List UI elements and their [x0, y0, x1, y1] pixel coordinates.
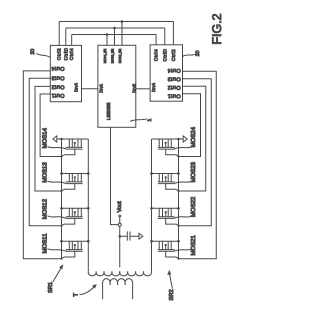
svg-text:T: T	[73, 293, 80, 297]
transistor MOS12	[60, 207, 89, 227]
junction MOS3_EN/Ctrl3	[113, 27, 116, 30]
transistor MOS24	[152, 138, 180, 158]
wire left Ctrl2 stub	[58, 22, 60, 46]
svg-text:MOS22: MOS22	[190, 196, 197, 217]
svg-text:Drv4: Drv4	[74, 82, 79, 92]
wire Out2-left to MOS13 gate	[35, 86, 62, 191]
svg-text:Ctrl4: Ctrl4	[154, 49, 159, 61]
driver U-left 20	[50, 45, 81, 101]
svg-text:Out3: Out3	[51, 74, 64, 80]
svg-text:20: 20	[195, 50, 201, 56]
wire Out1-left to MOS14 gate	[40, 94, 61, 157]
leader SR1	[53, 265, 63, 281]
svg-text:MOS3_EN: MOS3_EN	[110, 49, 114, 63]
arrow output right (node B)	[179, 136, 188, 142]
wire Ctrl2 bus (top outer)	[59, 21, 173, 23]
wire Out2-right to MOS23 gate	[179, 86, 206, 191]
wire Drv2	[136, 88, 150, 90]
label MOS22	[174, 196, 197, 218]
leader 20 right	[183, 54, 195, 56]
svg-text:20: 20	[30, 49, 36, 55]
label MOS11	[41, 233, 66, 254]
arrow output centre	[139, 233, 143, 239]
junction Vout node	[118, 235, 121, 238]
svg-text:Out4: Out4	[51, 65, 64, 71]
label MOS23	[174, 161, 197, 183]
junction MOS4_EN/Ctrl4	[106, 33, 109, 36]
wire left Ctrl4 stub	[71, 35, 73, 46]
svg-text:MOS13: MOS13	[41, 162, 48, 183]
svg-text:Out1: Out1	[51, 92, 64, 98]
svg-text:CtrlD: CtrlD	[63, 47, 68, 60]
label MOS21	[174, 234, 197, 255]
transistor MOS23	[150, 172, 180, 192]
svg-text:LSENSE: LSENSE	[106, 103, 111, 120]
wire left column inner rail to winding	[87, 139, 89, 267]
terminal Vout node circle	[118, 223, 121, 226]
svg-text:Vout: Vout	[117, 201, 123, 212]
arrow output left (node A)	[53, 136, 62, 142]
svg-text:MOS12: MOS12	[41, 198, 48, 219]
wire Out1-right to MOS24 gate	[179, 94, 201, 157]
wire centre tap	[119, 226, 121, 267]
svg-text:Out3: Out3	[167, 76, 180, 82]
driver U-right 20	[150, 45, 182, 101]
svg-text:Out2: Out2	[167, 84, 180, 90]
wire right column outer rail	[178, 139, 180, 259]
wire Out3-left to MOS12 gate	[29, 78, 61, 226]
wire Out3-right to MOS22 gate	[179, 79, 212, 226]
svg-text:1: 1	[147, 119, 153, 122]
svg-text:MOS2_EN: MOS2_EN	[118, 49, 122, 63]
svg-text:Ctrl4: Ctrl4	[69, 48, 74, 60]
label MOS13	[41, 162, 66, 184]
wire Vout terminal stub	[119, 217, 121, 223]
wire right column inner rail to winding	[151, 139, 153, 267]
leader 1	[130, 119, 147, 122]
wire MOS2_EN stub	[121, 22, 123, 46]
wire Ctrl4 bus (top inner)	[72, 34, 156, 36]
wire MOS4_EN stub	[106, 35, 108, 46]
transformer secondary winding	[88, 271, 120, 276]
junction MOS2_EN/Ctrl2	[121, 20, 124, 23]
svg-text:MOS21: MOS21	[190, 234, 197, 255]
leader 20 left	[36, 53, 50, 57]
wire Out4-left to MOS11 gate	[23, 71, 61, 259]
terminal Vout small	[119, 215, 121, 217]
wire right Ctrl4 stub	[155, 35, 157, 45]
wire right Ctrl3 stub	[164, 28, 166, 45]
label MOS14	[41, 127, 66, 149]
transistor MOS13	[60, 172, 89, 192]
leader SR2	[168, 271, 172, 288]
svg-text:Drv4: Drv4	[151, 82, 156, 92]
svg-text:Out1: Out1	[167, 93, 180, 99]
controller U1 (1)	[98, 45, 136, 127]
transistor MOS14	[60, 138, 88, 158]
svg-text:Ctrl2: Ctrl2	[57, 48, 62, 60]
svg-text:Out2: Out2	[51, 83, 64, 89]
svg-text:Drv1: Drv1	[98, 83, 103, 93]
transistor MOS11	[60, 240, 89, 260]
wire Ctrl3 bus (top middle)	[66, 27, 165, 29]
wire Drv1	[82, 88, 98, 90]
label MOS12	[41, 198, 66, 219]
wire Out4-right to MOS21 gate	[179, 71, 217, 258]
svg-text:Out4: Out4	[167, 67, 180, 73]
svg-text:CtrlD: CtrlD	[162, 48, 167, 61]
capacitor Cout	[120, 232, 140, 241]
wire right Ctrl2 stub	[172, 22, 174, 45]
wire MOS3_EN stub	[114, 28, 116, 45]
wire left Ctrl3 stub	[65, 28, 67, 45]
svg-text:MOS23: MOS23	[190, 161, 197, 182]
svg-text:MOS14: MOS14	[41, 127, 48, 148]
transformer primary winding	[102, 279, 132, 300]
svg-text:Ctrl2: Ctrl2	[171, 49, 176, 61]
svg-text:MOS11: MOS11	[41, 233, 48, 254]
leader T	[80, 285, 96, 295]
label MOS24	[174, 126, 197, 149]
svg-text:SR2: SR2	[169, 289, 175, 300]
svg-text:Drv2: Drv2	[131, 83, 136, 93]
svg-text:MOS24: MOS24	[190, 126, 197, 147]
svg-text:FIG.2: FIG.2	[210, 13, 224, 44]
svg-text:SR1: SR1	[48, 282, 54, 293]
wire LSENSE to Vout node	[111, 127, 119, 224]
transistor MOS21	[150, 240, 180, 260]
wire left column outer rail	[61, 139, 63, 259]
svg-text:MOS4_EN: MOS4_EN	[103, 49, 107, 63]
transistor MOS22	[150, 207, 180, 227]
